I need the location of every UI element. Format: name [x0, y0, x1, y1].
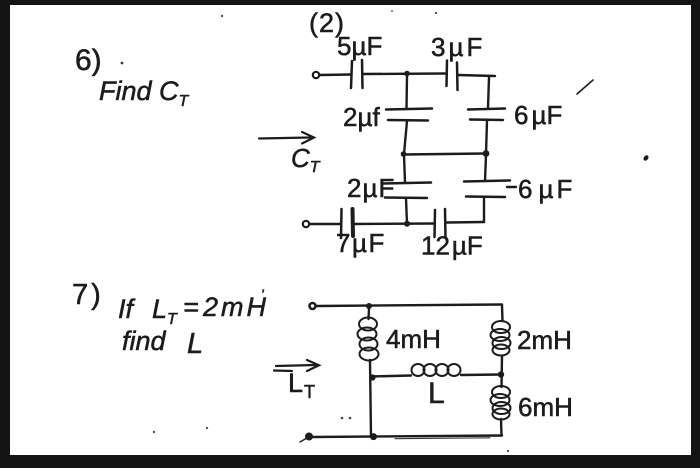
stray dot near Find — [121, 62, 124, 65]
stray dot right — [642, 154, 649, 161]
border bar right — [691, 0, 700, 468]
svg-text:Find CT: Find CT — [99, 76, 190, 110]
label 6mH — [518, 392, 573, 422]
svg-text:7): 7) — [72, 279, 101, 311]
svg-text:If: If — [118, 294, 136, 324]
label 2mH — [517, 325, 572, 355]
label CT — [291, 143, 321, 176]
svg-text:=: = — [183, 292, 199, 322]
arrow CT input — [259, 132, 314, 144]
label 12uF — [421, 231, 483, 261]
wire left upper vertical — [405, 76, 408, 108]
label 2uF lower — [347, 173, 395, 203]
wire middle horizontal — [403, 154, 486, 155]
label 6uF lower — [518, 174, 575, 204]
svg-text:LT: LT — [288, 368, 315, 402]
svg-text:5µF: 5µF — [337, 31, 382, 61]
wire top-left — [320, 73, 351, 76]
arrow LT input — [274, 360, 319, 371]
capacitor 6uF upper — [468, 109, 505, 121]
wire right vertical top (circuit 7) — [501, 305, 504, 321]
text Find CT — [99, 76, 190, 110]
capacitor 5uF — [351, 60, 363, 88]
stray dot bottom left1 — [153, 431, 155, 433]
inductor 2mH — [491, 321, 511, 356]
junction node B — [401, 151, 407, 157]
svg-text:2µf: 2µf — [343, 102, 380, 132]
capacitor 2uF lower — [383, 183, 431, 199]
junction node C — [483, 150, 490, 157]
problem number 7) — [72, 279, 101, 311]
svg-text:7µF: 7µF — [336, 228, 386, 258]
svg-text:2mH: 2mH — [202, 292, 269, 322]
stray dot top1 — [221, 15, 223, 17]
wire top-middle — [363, 72, 446, 75]
terminal bottom-left (circuit 7) — [300, 433, 313, 443]
border bar left — [0, 0, 10, 468]
label 2uF upper — [343, 102, 380, 132]
svg-text:12µF: 12µF — [421, 231, 483, 261]
capacitor 2uF upper — [386, 109, 432, 121]
stray dots bottom wire — [341, 417, 352, 420]
wire right upper vertical — [488, 77, 489, 108]
svg-text:3µF: 3µF — [431, 32, 485, 62]
junction node D — [404, 221, 410, 227]
svg-text:6mH: 6mH — [518, 392, 573, 422]
wire right bottom vertical — [483, 198, 485, 223]
terminal bottom-left (circuit 6) — [303, 221, 309, 227]
junction node A — [404, 71, 410, 77]
wire right vertical middle (circuit 7) — [500, 356, 503, 387]
label L — [428, 377, 445, 410]
label 3uF — [431, 32, 485, 62]
border bar bottom — [0, 455, 700, 468]
junction node F — [369, 374, 375, 380]
inductor 6mH — [491, 386, 511, 420]
label 4mH — [386, 324, 441, 354]
problem number 6) — [75, 44, 102, 77]
inductor 4mH — [358, 318, 379, 361]
capacitor 6uF lower — [464, 181, 510, 198]
capacitor 7uF — [341, 209, 353, 238]
svg-text:L: L — [187, 328, 203, 360]
wire left vertical upper (circuit 7) — [367, 308, 370, 319]
svg-text:LT: LT — [152, 294, 178, 328]
capacitor 12uF — [435, 209, 446, 238]
svg-text:2mH: 2mH — [517, 325, 572, 355]
svg-text:CT: CT — [291, 143, 321, 176]
svg-text:L: L — [428, 377, 445, 410]
svg-text:6µF: 6µF — [518, 174, 575, 204]
terminal top-left (circuit 7) — [310, 303, 316, 309]
terminal top-left (circuit 6) — [313, 72, 319, 78]
capacitor 3uF — [447, 61, 458, 91]
label 5uF — [337, 31, 382, 61]
border bar top — [0, 0, 700, 5]
junction node E — [366, 303, 372, 309]
stray dot bottom right — [507, 450, 509, 452]
stray dot top3 — [391, 10, 393, 12]
svg-text:6): 6) — [75, 44, 102, 77]
wire bottom-left — [310, 223, 340, 225]
junction node G — [498, 371, 504, 377]
wire bottom double-stroke (circuit 7) — [395, 437, 490, 440]
stray slash mark — [577, 80, 593, 94]
label (2) — [309, 8, 345, 38]
text If LT = 2mH — [118, 286, 269, 328]
label 7uF — [336, 228, 386, 258]
wire right vertical bottom (circuit 7) — [500, 419, 503, 436]
svg-text:4mH: 4mH — [386, 324, 441, 354]
label 6uF upper — [514, 100, 562, 130]
svg-text:find: find — [122, 326, 167, 356]
label LT — [288, 368, 315, 402]
stray dot bottom left2 — [206, 427, 208, 429]
wire top (circuit 7) — [317, 305, 502, 307]
wire middle left (circuit 7) — [371, 376, 411, 377]
wire bottom-right — [447, 221, 484, 224]
wire left lower vertical — [404, 155, 405, 182]
wire right mid vertical — [486, 121, 487, 155]
lead dash 6uF lower — [507, 186, 516, 188]
wire bottom-middle — [354, 222, 433, 225]
wire left vertical lower (circuit 7) — [370, 360, 371, 437]
inductor L — [412, 364, 461, 376]
stray dot top2 — [435, 12, 437, 14]
svg-text:6µF: 6µF — [514, 100, 562, 130]
text find L — [122, 326, 203, 360]
junction node H — [370, 433, 377, 440]
wire left bottom vertical — [406, 199, 407, 225]
wire top-right — [459, 75, 496, 76]
wire left mid vertical — [404, 121, 407, 154]
wire right lower vertical — [485, 155, 486, 181]
wire middle right (circuit 7) — [461, 373, 501, 376]
wire bottom (circuit 7) — [313, 436, 502, 438]
svg-text:2µF: 2µF — [347, 173, 395, 203]
